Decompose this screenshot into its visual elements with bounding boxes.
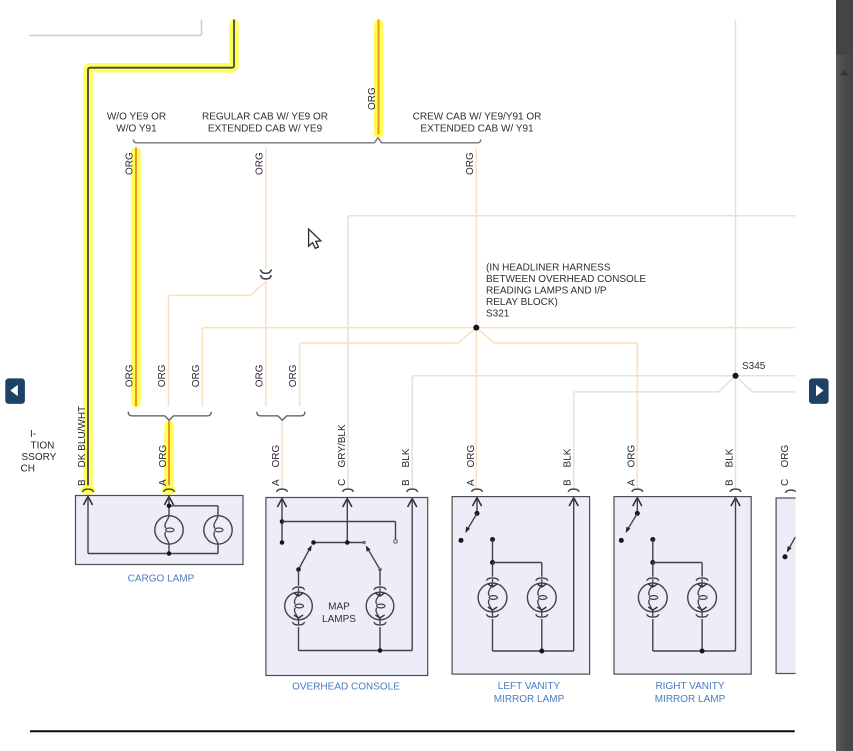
wire ORG from splice S321 to merge brace 2: [300, 328, 477, 407]
svg-text:EXTENDED CAB W/ YE9: EXTENDED CAB W/ YE9: [208, 123, 323, 134]
cargo lamp bulb 2: [204, 516, 232, 544]
svg-text:ORG: ORG: [271, 445, 282, 468]
left vanity mirror lamp switch pivot: [475, 511, 480, 516]
merge brace 1 (three ORG wires join to cargo lamp feed): [128, 412, 211, 421]
left vanity mirror lamp switch arm (open): [463, 513, 477, 534]
right vanity mirror lamp feed bus to bulb 2: [653, 562, 702, 564]
svg-text:W/O YE9 OR: W/O YE9 OR: [107, 112, 166, 123]
overhead console junction on pin A wire: [280, 519, 285, 524]
map lamp bulb 1: [285, 587, 313, 625]
right vanity mirror lamp switch arm (open): [624, 513, 638, 534]
overhead console internal wire from pin B: [411, 499, 413, 651]
overhead console return bus wire: [299, 650, 413, 652]
overhead console internal wire from pin A: [281, 499, 283, 543]
option split bracket (cab configurations): [133, 138, 480, 143]
wire ORG from splice S321 left to merge brace 1: [202, 328, 476, 407]
left vanity mirror lamp internal wire from pin A: [476, 498, 478, 514]
svg-text:ORG: ORG: [288, 364, 299, 387]
clipped box switch contact: [783, 554, 788, 559]
left vanity mirror lamp lamp feed wire: [492, 540, 494, 563]
overhead console wire to map lamp 2: [379, 570, 381, 586]
svg-text:ORG: ORG: [780, 445, 791, 468]
cargo lamp pin B entry arrow: [83, 497, 92, 506]
right vanity mirror lamp lamp feed node: [650, 537, 655, 542]
svg-text:C: C: [780, 479, 791, 486]
connector collar overhead console pin B: [407, 489, 418, 492]
right vanity mirror lamp switch pivot: [635, 511, 640, 516]
overhead console map lamp switch 2 arm: [364, 544, 380, 569]
svg-text:A: A: [626, 479, 637, 486]
bottom separator rule: [30, 730, 795, 732]
left vanity mirror lamp return junction: [539, 649, 544, 654]
overhead console switch 2 pivot: [378, 568, 382, 572]
svg-text:CARGO LAMP: CARGO LAMP: [128, 574, 195, 585]
connector collar left vanity pin B: [568, 489, 579, 492]
cargo lamp junction at pin A feed: [167, 504, 172, 509]
overhead console internal wire from pin C: [346, 499, 348, 543]
cargo lamp bulb 1: [155, 516, 183, 544]
svg-text:REGULAR CAB W/ YE9 OR: REGULAR CAB W/ YE9 OR: [202, 112, 328, 123]
wire ORG from merge brace 2 to overhead console pin A: [281, 421, 283, 489]
right vanity mirror lamp bulb 1 return wire: [652, 619, 654, 651]
svg-text:OVERHEAD CONSOLE: OVERHEAD CONSOLE: [292, 682, 400, 693]
svg-text:ORG: ORG: [157, 364, 168, 387]
left vanity mirror lamp internal wire from pin B: [573, 498, 575, 651]
overhead console component box: [266, 498, 428, 676]
svg-text:B: B: [401, 479, 412, 486]
svg-text:A: A: [466, 479, 477, 486]
left vanity mirror lamp feed junction: [490, 560, 495, 565]
navigate next button: [809, 378, 829, 404]
splice S321: [473, 325, 479, 331]
svg-text:MIRROR LAMP: MIRROR LAMP: [494, 694, 565, 705]
wire ORG below inline connector to merge brace 2: [265, 280, 267, 406]
inline connector on ORG branch 2: [260, 270, 271, 274]
right vanity mirror lamp feed junction: [650, 560, 655, 565]
svg-text:TION: TION: [31, 441, 55, 452]
cargo lamp internal wire to bulb 2 top: [169, 505, 218, 507]
overhead console pin B entry arrow: [408, 499, 417, 508]
wire BLK branch from splice S345 to lower right: [736, 376, 795, 392]
right vanity mirror lamp pin B entry arrow: [731, 498, 740, 507]
svg-text:ORG: ORG: [158, 445, 169, 468]
wire ORG from splice S321 to right edge: [476, 327, 795, 329]
right vanity mirror lamp lamp feed wire: [652, 540, 654, 563]
wire BLK from splice S345 to right edge: [736, 375, 795, 377]
cargo lamp return junction: [167, 551, 172, 556]
splice S345: [733, 373, 739, 379]
clipped component box at right edge: [776, 498, 816, 674]
map lamp 2 return wire: [379, 627, 381, 651]
cargo lamp pin A entry arrow: [164, 497, 173, 506]
right vanity mirror lamp return junction: [700, 649, 705, 654]
merge brace 2 (two ORG wires join to overhead console feed): [257, 412, 305, 421]
highlight trace over merged ORG wire to cargo lamp pin A: [164, 426, 174, 490]
cargo lamp bulb 1 return wire: [168, 544, 170, 553]
highlight trace over DK BLU/WHT wire: [88, 24, 234, 489]
overhead console open contact (ring): [394, 540, 398, 544]
cargo lamp return bus wire: [88, 553, 218, 555]
left vanity mirror lamp bulb 1: [478, 578, 507, 617]
wire (lavender, clipped at top left): [30, 20, 202, 36]
right vanity mirror lamp bulb 1: [638, 578, 667, 617]
svg-text:ORG: ORG: [254, 152, 265, 175]
left vanity mirror lamp bulb 2: [527, 578, 556, 617]
svg-text:EXTENDED CAB W/ Y91: EXTENDED CAB W/ Y91: [420, 123, 534, 134]
overhead console map lamp switch 1 arm: [299, 544, 314, 570]
navigate previous button: [5, 378, 25, 404]
left vanity mirror lamp bulb 1 return wire: [492, 619, 494, 651]
right vanity mirror lamp bulb 2 return wire: [701, 619, 703, 651]
svg-text:ORG: ORG: [367, 87, 378, 110]
highlight trace over ORG branch wire (W/O YE9): [131, 152, 141, 403]
right vanity mirror lamp component box: [614, 497, 751, 674]
svg-text:MAP: MAP: [328, 602, 350, 613]
wire ORG feed (highlighted) from top: [378, 20, 380, 135]
overhead console switch contact right: [362, 541, 366, 545]
svg-text:BLK: BLK: [725, 448, 736, 467]
svg-text:GRY/BLK: GRY/BLK: [337, 424, 348, 467]
wire BLK from splice S345 to left vanity mirror lamp pin B: [574, 376, 736, 489]
cargo lamp internal wire from pin B: [87, 497, 89, 554]
svg-text:ORG: ORG: [626, 445, 637, 468]
svg-text:ORG: ORG: [125, 364, 136, 387]
left vanity mirror lamp feed bus to bulb 2: [493, 562, 542, 564]
svg-text:C: C: [337, 479, 348, 486]
right vanity mirror lamp internal wire from pin B: [735, 498, 737, 651]
wire DK BLU/WHT (highlighted) to cargo lamp pin B: [88, 20, 234, 490]
clipped box switch arm: [788, 537, 796, 551]
wire ORG from splice S321 to right vanity mirror lamp pin A: [476, 328, 637, 489]
left vanity mirror lamp switch throw contact: [459, 538, 464, 543]
wire ORG branch 1 (highlighted, W/O YE9) to merge brace 1: [135, 148, 137, 407]
left vanity mirror lamp bulb 2 return wire: [541, 619, 543, 651]
wire ORG branch from inline connector left to merge brace 1: [169, 282, 266, 407]
wire ORG merged (highlighted) to cargo lamp pin A: [168, 421, 170, 489]
svg-text:RIGHT VANITY: RIGHT VANITY: [655, 681, 724, 692]
svg-text:CREW CAB W/ YE9/Y91 OR: CREW CAB W/ YE9/Y91 OR: [413, 112, 542, 123]
connector collar cargo lamp pin A: [163, 489, 174, 492]
map lamp bulb 2: [366, 587, 394, 625]
right vanity mirror lamp pin A entry arrow: [633, 498, 642, 507]
svg-text:B: B: [725, 479, 736, 486]
right vanity mirror lamp switch throw contact: [619, 538, 624, 543]
svg-text:LAMPS: LAMPS: [322, 614, 356, 625]
highlight blob at cargo lamp pin B: [81, 485, 96, 494]
svg-text:(IN HEADLINER HARNESS: (IN HEADLINER HARNESS: [486, 262, 611, 273]
svg-text:S345: S345: [742, 361, 766, 372]
overhead console switch contact left: [311, 540, 316, 545]
right vanity mirror lamp return bus wire: [653, 650, 736, 652]
overhead console wire to map lamp 1: [298, 570, 300, 586]
wire BLK from overhead console pin B to splice S345: [412, 376, 735, 489]
svg-text:DK BLU/WHT: DK BLU/WHT: [77, 406, 88, 468]
svg-text:LEFT VANITY: LEFT VANITY: [498, 681, 561, 692]
cargo lamp component box: [76, 496, 244, 565]
svg-text:ORG: ORG: [125, 152, 136, 175]
connector collar right vanity pin B: [730, 489, 741, 492]
wire ORG branch 3 (CREW CAB) through splice S321 to left vanity mirror lamp pin A: [475, 148, 477, 490]
svg-text:W/O Y91: W/O Y91: [116, 123, 157, 134]
left vanity mirror lamp return bus wire: [493, 650, 574, 652]
left vanity mirror lamp pin B entry arrow: [569, 498, 578, 507]
overhead console pin C entry arrow: [343, 499, 352, 508]
cargo lamp bulb 2 return wire: [217, 544, 219, 553]
svg-text:ORG: ORG: [466, 445, 477, 468]
overhead console switch bus bar: [314, 542, 365, 544]
overhead console pin A entry arrow: [277, 499, 286, 508]
right vanity mirror lamp bulb 2: [688, 578, 717, 617]
svg-text:B: B: [563, 479, 574, 486]
wire BLK vertical through splice S345 to right vanity mirror lamp pin B: [735, 20, 737, 490]
connector collar overhead console pin A: [276, 489, 287, 492]
mouse cursor: [309, 229, 321, 248]
left vanity mirror lamp component box: [452, 497, 589, 674]
svg-text:B: B: [77, 479, 88, 486]
connector collar left vanity pin A: [471, 489, 482, 492]
svg-text:CH: CH: [21, 464, 35, 475]
cargo lamp internal wire from pin A: [168, 497, 170, 516]
wire ORG branch 2 (REGULAR CAB) down to inline connector: [265, 148, 267, 270]
svg-text:BLK: BLK: [401, 448, 412, 467]
svg-text:ORG: ORG: [465, 152, 476, 175]
wire GRY/BLK horizontal feed to overhead console pin C: [348, 216, 795, 489]
overhead console pin C junction: [345, 540, 350, 545]
svg-text:RELAY BLOCK): RELAY BLOCK): [486, 297, 558, 308]
svg-text:S321: S321: [486, 308, 510, 319]
left vanity mirror lamp pin A entry arrow: [472, 498, 481, 507]
svg-text:I-: I-: [30, 429, 36, 440]
overhead console pin A wire end node: [280, 540, 285, 545]
highlight trace over ORG feed wire: [374, 24, 384, 133]
svg-text:BETWEEN OVERHEAD CONSOLE: BETWEEN OVERHEAD CONSOLE: [486, 274, 646, 285]
map lamp 1 return wire: [298, 627, 300, 651]
svg-text:ORG: ORG: [191, 364, 202, 387]
svg-text:READING LAMPS AND I/P: READING LAMPS AND I/P: [486, 285, 607, 296]
svg-text:SSORY: SSORY: [22, 452, 57, 463]
connector collar cargo lamp pin B: [82, 489, 93, 492]
highlight blob at cargo lamp pin A: [162, 485, 177, 494]
overhead console internal bus from pin A: [282, 521, 396, 523]
svg-text:BLK: BLK: [563, 448, 574, 467]
connector collar right vanity pin A: [632, 489, 643, 492]
svg-text:MIRROR LAMP: MIRROR LAMP: [655, 694, 726, 705]
left vanity mirror lamp lamp feed node: [490, 537, 495, 542]
connector collar clipped box pin C: [785, 490, 796, 493]
overhead console return junction: [378, 648, 383, 653]
connector collar overhead console pin C: [342, 489, 353, 492]
svg-text:A: A: [271, 479, 282, 486]
right vanity mirror lamp internal wire from pin A: [636, 498, 638, 514]
overhead console switch 1 pivot: [296, 567, 301, 572]
svg-text:A: A: [158, 479, 169, 486]
svg-text:ORG: ORG: [254, 364, 265, 387]
